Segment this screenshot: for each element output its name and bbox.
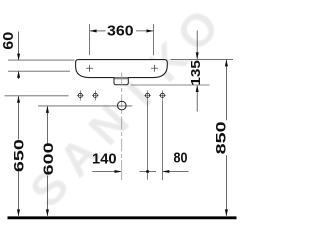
watermark SANIKO diagonal [20,0,229,217]
dim 140 line with arrow at centerline [92,171,121,173]
wire: right hole inner extension line down [147,101,149,180]
dim 600 line [46,106,48,143]
svg-text:60: 60 [1,32,17,50]
wire: holes level extension line left [5,95,69,97]
basin outline [76,60,168,78]
centerline vertical (chain line) [121,73,123,161]
wire: 360 dim line with arrows [90,30,106,32]
wire: 360 dim left extension line [89,24,91,55]
svg-text:140: 140 [92,151,117,167]
fixing hole 2 [92,90,99,100]
wire: 60 dim lower arrow line [18,72,20,79]
dim 80 chain dot [140,171,157,173]
wire: 60 dim bottom reference line [8,70,70,72]
wire: right hole outer extension line down [161,101,163,181]
fixing hole 3 [144,90,151,100]
wire: trap inner lip line [114,78,128,80]
wire: rim extension line right (135/850 top reference) [171,58,234,60]
svg-text:850: 850 [213,121,228,154]
dim 850 line [225,60,227,120]
svg-text:80: 80 [174,151,188,167]
wire: drain level extension line [38,105,132,107]
wire: trap bottom extension line right (135 bottom reference) [131,84,210,86]
wire: 360 dim right extension line [153,24,155,55]
svg-text:600: 600 [41,142,56,175]
wire: rim extension line left (60 dim top reference) [8,59,75,61]
wire: 60 dim upper arrow line [18,32,20,60]
dim 135 upper arrow [196,31,198,59]
svg-text:360: 360 [107,24,134,40]
drain trap U under basin [114,78,128,85]
fixing hole 1 [77,90,84,100]
floor line [8,216,237,219]
dim 650 line [18,96,20,139]
drain circle [118,101,127,110]
tap hole cross left [86,65,93,72]
dim 135 lower arrow [196,86,198,112]
svg-text:135: 135 [188,60,203,86]
dim 80 line with arrow [163,171,189,173]
fixing hole 4 [159,90,166,100]
svg-text:650: 650 [12,139,27,172]
tap hole cross right [151,65,158,72]
